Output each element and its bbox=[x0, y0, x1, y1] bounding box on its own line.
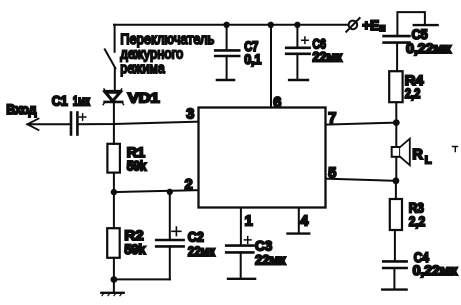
op-amp U1 (IC box) bbox=[199, 108, 326, 208]
ground: C4 end bar bbox=[382, 288, 406, 290]
wire: R2 to bottom node bbox=[113, 258, 115, 280]
label 0,22мк C4 bbox=[413, 262, 459, 278]
label 59k R2 bbox=[124, 241, 145, 257]
svg-text:4: 4 bbox=[300, 214, 308, 230]
capacitor C2 bbox=[156, 192, 183, 280]
terminal +Ep bbox=[346, 18, 359, 32]
label RL bbox=[412, 147, 431, 166]
svg-text:59k: 59k bbox=[124, 241, 145, 257]
wire: C1 to pin 3 of IC bbox=[77, 122, 198, 125]
capacitor C4 bbox=[383, 261, 406, 289]
svg-text:2,2: 2,2 bbox=[409, 213, 426, 229]
label Переключатель bbox=[120, 32, 214, 48]
label C6 bbox=[312, 35, 326, 51]
diode VD1 bbox=[103, 89, 124, 105]
svg-text:п: п bbox=[379, 22, 385, 34]
pin 5 label bbox=[328, 165, 336, 181]
wire: rail left corner down to switch bbox=[114, 25, 116, 52]
pin 1 label bbox=[245, 214, 253, 230]
wire: C2 bottom to node bbox=[114, 278, 170, 280]
label 22мк C2 bbox=[188, 243, 216, 259]
resistor R1 bbox=[107, 144, 120, 173]
wire: R1 to node bbox=[113, 173, 115, 193]
svg-text:2,2: 2,2 bbox=[405, 85, 421, 101]
label +Eп bbox=[362, 18, 385, 34]
label C2 bbox=[188, 229, 204, 245]
label C5 bbox=[412, 26, 428, 42]
wire: R4 to output node bbox=[395, 102, 397, 122]
label C1 bbox=[52, 93, 68, 109]
svg-text:2: 2 bbox=[185, 177, 193, 193]
ground: C3 end bar bbox=[228, 278, 255, 280]
pin 2 label bbox=[185, 177, 193, 193]
pin 4 wire bbox=[298, 208, 300, 233]
pin 3 label bbox=[186, 107, 194, 123]
wire: R3 to C4 bbox=[394, 230, 396, 261]
node: C7 on rail bbox=[223, 22, 229, 28]
label 0,22мк C5 bbox=[406, 40, 452, 56]
wire: node down to R2 bbox=[113, 192, 115, 228]
label C4 bbox=[414, 249, 429, 265]
speaker RL bbox=[392, 139, 410, 166]
label 22мк C6 bbox=[312, 48, 343, 64]
node: output junction top bbox=[393, 119, 400, 126]
svg-text:режима: режима bbox=[120, 61, 165, 77]
node: bottom left junction bbox=[111, 276, 118, 283]
capacitor C6 bbox=[286, 25, 309, 80]
wire: arrow to C1 bbox=[27, 123, 70, 125]
pin 4 label bbox=[300, 214, 308, 230]
label R4 bbox=[405, 72, 424, 88]
ground: C7 end bar bbox=[217, 79, 234, 81]
capacitor C7 bbox=[215, 25, 239, 80]
svg-text:VD1: VD1 bbox=[128, 90, 160, 106]
wire: pin 5 to bottom node bbox=[326, 179, 396, 181]
label дежурного bbox=[120, 46, 183, 62]
node: R1/R2/pin2 junction bbox=[111, 189, 117, 195]
resistor R4 bbox=[389, 71, 402, 102]
resistor R2 bbox=[107, 228, 120, 258]
label R3 bbox=[409, 199, 424, 215]
wire: C5 top loop to rail bar bbox=[397, 12, 437, 35]
svg-text:6: 6 bbox=[273, 95, 281, 111]
ground: C6 end bar bbox=[289, 79, 308, 81]
wire: node to pin 2 of IC bbox=[114, 190, 199, 192]
label Вход bbox=[6, 101, 36, 117]
pin 7 label bbox=[328, 111, 336, 127]
label 1мк bbox=[73, 93, 91, 109]
wire: node to R3 bbox=[395, 181, 397, 199]
input arrow bbox=[27, 119, 38, 130]
svg-text:Переключатель: Переключатель bbox=[120, 32, 214, 48]
label R2 bbox=[124, 227, 143, 243]
svg-text:+E: +E bbox=[362, 18, 379, 33]
svg-text:1: 1 bbox=[245, 214, 253, 230]
node: speaker bottom junction bbox=[393, 177, 400, 184]
svg-text:3: 3 bbox=[186, 107, 194, 123]
label 22мк C3 bbox=[255, 252, 287, 268]
label VD1 bbox=[128, 90, 160, 106]
svg-text:22мк: 22мк bbox=[255, 252, 287, 268]
label 0,1 bbox=[244, 51, 261, 67]
svg-text:0,1: 0,1 bbox=[244, 51, 261, 67]
label C3 bbox=[255, 237, 272, 253]
svg-text:R: R bbox=[412, 147, 423, 163]
switch SA1 lever (standby switch) bbox=[105, 49, 116, 68]
capacitor C3 bbox=[226, 237, 253, 278]
capacitor C1 bbox=[71, 113, 86, 135]
svg-text:дежурного: дежурного bbox=[120, 46, 183, 62]
node: C2 tap on pin2 wire bbox=[167, 189, 173, 195]
svg-text:22мк: 22мк bbox=[312, 48, 343, 64]
pin 6 wire bbox=[270, 25, 272, 108]
pin 6 label bbox=[273, 95, 281, 111]
ground: pin 4 end bar bbox=[288, 232, 310, 234]
svg-text:Вход: Вход bbox=[6, 101, 36, 117]
svg-text:C1: C1 bbox=[52, 93, 68, 109]
label 59k R1 bbox=[127, 158, 147, 174]
node: C6 on rail bbox=[294, 22, 300, 28]
label режима bbox=[120, 61, 165, 77]
label 2,2 R3 bbox=[409, 213, 426, 229]
wire: pin 7 to output node bbox=[326, 123, 397, 125]
resistor R3 bbox=[390, 199, 402, 230]
node: pin6 on rail bbox=[268, 22, 274, 28]
label 2,2 R4 bbox=[405, 85, 421, 101]
svg-text:59k: 59k bbox=[127, 158, 147, 174]
wire: node through speaker bbox=[395, 123, 397, 181]
artifact: small mark right edge bbox=[453, 147, 458, 152]
svg-text:22мк: 22мк bbox=[188, 243, 216, 259]
svg-text:0,22мк: 0,22мк bbox=[406, 40, 452, 56]
ground: bottom-left bbox=[101, 280, 123, 296]
label R1 bbox=[127, 144, 145, 160]
label C7 bbox=[244, 38, 258, 54]
svg-text:L: L bbox=[425, 155, 432, 167]
wire: +Ep supply rail bbox=[114, 24, 349, 26]
pin 1 wire bbox=[240, 208, 242, 246]
wire: VD1 down through input node to R1 bbox=[113, 102, 115, 144]
svg-text:0,22мк: 0,22мк bbox=[413, 262, 459, 278]
wire: switch to VD1 bbox=[114, 68, 116, 92]
capacitor C5 bbox=[384, 36, 410, 71]
svg-text:1мк: 1мк bbox=[73, 93, 91, 109]
